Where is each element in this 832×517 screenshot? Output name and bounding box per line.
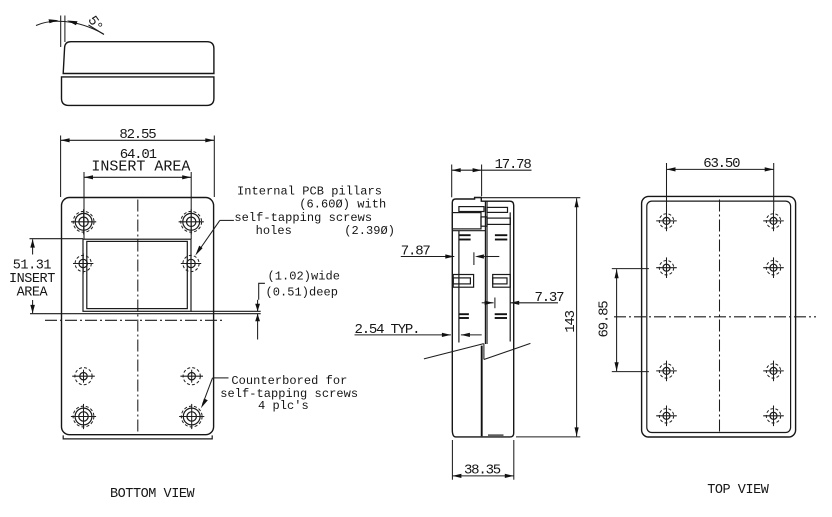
vertical centerline <box>719 200 721 435</box>
svg-text:Counterbored for: Counterbored for <box>231 374 347 388</box>
screw hole lower-left <box>72 368 95 385</box>
insert area inner rect <box>87 241 188 308</box>
flanged rib right <box>493 275 511 288</box>
svg-text:self-tapping screws: self-tapping screws <box>234 211 372 225</box>
svg-text:(1.02)wide: (1.02)wide <box>268 269 341 283</box>
svg-text:(2.39Ø): (2.39Ø) <box>344 224 395 238</box>
inner left wall <box>458 231 460 343</box>
horizontal centerline <box>45 319 224 321</box>
outer outline <box>642 196 796 437</box>
svg-text:7.87: 7.87 <box>401 244 431 260</box>
svg-text:38.35: 38.35 <box>464 463 501 479</box>
extension line vertical <box>60 16 62 48</box>
svg-text:AREA: AREA <box>17 286 49 301</box>
right rib bar <box>487 218 510 224</box>
svg-text:63.50: 63.50 <box>703 156 740 172</box>
break line 1 <box>424 344 484 359</box>
svg-text:17.78: 17.78 <box>495 157 532 173</box>
horizontal centerline <box>614 316 816 318</box>
screw hole mid-right <box>181 253 201 273</box>
counterbored boss bottom-right <box>179 404 204 429</box>
svg-text:BOTTOM VIEW: BOTTOM VIEW <box>110 487 196 502</box>
svg-text:(0.51)deep: (0.51)deep <box>266 286 339 300</box>
break line 2 <box>484 343 531 359</box>
svg-text:69.85: 69.85 <box>596 301 612 338</box>
svg-text:INSERT AREA: INSERT AREA <box>91 158 190 175</box>
dimension arc <box>36 21 104 34</box>
svg-text:2.54 TYP.: 2.54 TYP. <box>355 322 420 338</box>
top rib slot right <box>487 207 508 212</box>
leader to screw hole <box>220 219 234 221</box>
leader under text <box>89 25 105 35</box>
outline <box>452 197 513 437</box>
svg-text:7.37: 7.37 <box>535 290 565 306</box>
screw bosses 8x <box>656 211 677 232</box>
middle wall pair <box>484 201 486 344</box>
thick rib pair upper-right <box>495 234 507 236</box>
pillar tab <box>481 217 487 226</box>
groove upper line extension <box>191 310 261 312</box>
svg-text:4 plc's: 4 plc's <box>258 399 309 413</box>
bottom shell <box>62 77 214 106</box>
top rib slot left <box>459 207 484 212</box>
svg-text:(6.60Ø) with: (6.60Ø) with <box>299 198 386 212</box>
svg-text:82.55: 82.55 <box>119 127 156 143</box>
screw hole lower-right <box>180 368 203 385</box>
edge extension line <box>64 16 66 43</box>
inner outline <box>647 201 791 432</box>
counterbored boss bottom-left <box>71 404 96 429</box>
parting skirt line <box>63 435 212 439</box>
screw hole mid-left <box>73 253 93 273</box>
arc arrowheads <box>49 19 59 23</box>
flanged rib left <box>453 275 473 288</box>
thick rib pair upper-left <box>459 234 471 236</box>
top shell <box>63 42 214 74</box>
PCB pillar section <box>452 213 481 229</box>
groove line full width <box>30 313 261 315</box>
thick rib pair lower-left <box>459 313 469 315</box>
thick rib pair lower-right <box>495 313 507 315</box>
inner right wall <box>509 212 511 341</box>
lower mid thick wall <box>481 346 483 437</box>
svg-text:holes: holes <box>256 224 292 238</box>
svg-text:143: 143 <box>563 310 579 332</box>
enclosure outline <box>62 198 214 435</box>
PCB pillar boss top-left <box>71 209 96 234</box>
svg-text:TOP VIEW: TOP VIEW <box>707 483 770 498</box>
svg-text:Internal PCB pillars: Internal PCB pillars <box>237 184 382 198</box>
break jog <box>483 344 485 360</box>
insert area outer rect <box>83 239 191 311</box>
bottom inner tick <box>488 434 504 436</box>
vertical centerline <box>137 200 139 435</box>
PCB pillar boss top-right <box>179 209 204 234</box>
shelf line <box>452 230 485 232</box>
